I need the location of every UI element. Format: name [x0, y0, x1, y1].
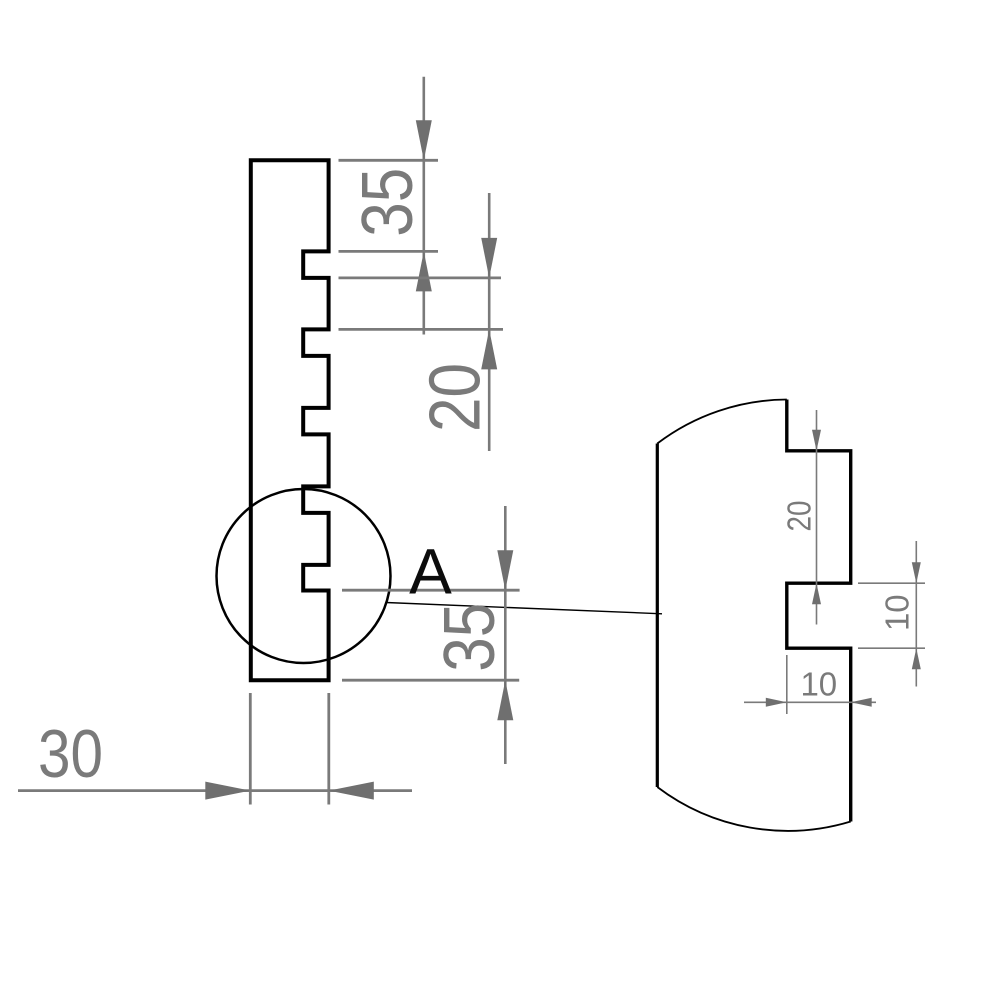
dimension 35 (top): text	[348, 168, 428, 237]
detail dimension 20: upper arrow	[812, 430, 821, 451]
dimension 35 (bottom): extension line at bar bottom	[342, 679, 519, 682]
dimension 35 (top): lower arrow	[416, 251, 432, 291]
dimension 35 (bottom): dimension line	[504, 506, 507, 764]
dimension 35 (bottom): text	[430, 603, 510, 672]
detail dimension 10 (right): text	[879, 594, 916, 631]
dimension 35 (top): extension line at first notch top	[339, 250, 439, 253]
dimension 35 (top): extension line at bar top	[339, 159, 439, 162]
dimension 35 (top): dimension line	[422, 77, 425, 335]
part outline: notched bar (main view)	[251, 160, 329, 680]
detail dimension 10 (right): upper arrow	[912, 562, 921, 583]
dimension 35 (bottom): lower arrow	[497, 680, 513, 720]
dimension 30 (bottom width): dimension line	[18, 789, 412, 792]
svg-text:20: 20	[415, 363, 495, 432]
detail dimension 10 (bottom): right arrow	[851, 698, 872, 707]
svg-text:35: 35	[348, 168, 428, 237]
dimension 20 (right): extension line at first notch bottom	[339, 276, 502, 279]
dimension 35 (top): upper arrow	[416, 120, 432, 160]
dimension 30 (bottom width): right extension line	[327, 693, 330, 805]
leader line from detail circle to detail view	[386, 603, 662, 614]
detail dimension 20: dimension line	[816, 410, 818, 625]
dimension 30 (bottom width): left extension line	[249, 693, 252, 805]
detail dimension 10 (bottom): dimension line	[744, 701, 876, 703]
detail dimension 10 (right): upper extension line	[858, 582, 925, 584]
detail dimension 10 (right): lower arrow	[912, 648, 921, 669]
detail dimension 10 (bottom): left extension line	[786, 655, 788, 714]
dimension 30 (bottom width): left arrow	[205, 782, 250, 800]
svg-text:10: 10	[879, 594, 916, 631]
detail dimension 10 (bottom): left arrow	[766, 698, 787, 707]
svg-text:10: 10	[800, 665, 837, 702]
detail view A: bottom boundary arc	[657, 787, 850, 831]
detail dimension 20: text	[781, 501, 818, 532]
dimension 20 (right): upper arrow	[481, 238, 497, 278]
dimension 35 (bottom): upper arrow	[497, 550, 513, 590]
dimension 20 (right): dimension line	[488, 193, 491, 451]
detail view A: left edge of part (magnified)	[656, 444, 659, 788]
dimension 35 (bottom): extension line at last notch bottom	[342, 589, 520, 592]
svg-text:A: A	[409, 535, 452, 607]
detail dimension 10 (right): dimension line	[915, 541, 917, 687]
svg-text:35: 35	[430, 603, 510, 672]
detail view A: right edge with notch (magnified)	[787, 400, 851, 822]
dimension 30 (bottom width): right arrow	[329, 782, 374, 800]
svg-text:20: 20	[781, 501, 818, 532]
dimension 20 (right): extension line at second notch top	[339, 328, 504, 331]
svg-text:30: 30	[38, 716, 103, 792]
detail dimension 10 (right): lower extension line	[858, 647, 925, 649]
detail view A: top boundary arc	[657, 400, 787, 444]
detail circle A	[217, 489, 391, 663]
dimension 20 (right): lower arrow	[481, 329, 497, 369]
detail dimension 20: lower arrow	[812, 583, 821, 604]
dimension 20 (right): text	[415, 363, 495, 432]
